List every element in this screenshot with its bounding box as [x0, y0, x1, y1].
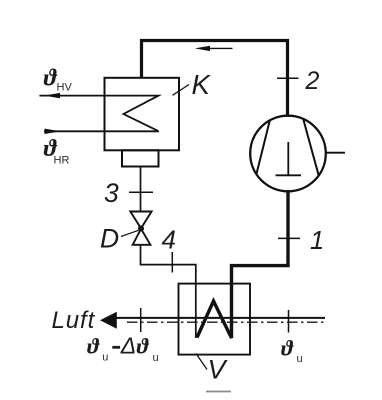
right duct tick	[288, 310, 290, 333]
compressor circle	[250, 116, 326, 192]
left duct tick	[140, 308, 142, 332]
svg-text:3: 3	[104, 178, 119, 208]
wire: receiver to expansion valve	[140, 167, 142, 212]
svg-text:K: K	[192, 69, 212, 100]
node 1 tick	[278, 237, 300, 239]
svg-text:4: 4	[162, 225, 176, 255]
leader line to D	[121, 230, 139, 236]
svg-text:ϑ: ϑ	[87, 333, 100, 358]
svg-text:1: 1	[310, 227, 324, 255]
wire: thick discharge pipe from condenser top to compressor inlet	[142, 41, 288, 117]
heating water coil zigzag inside K	[39, 96, 158, 132]
svg-text:u: u	[153, 352, 159, 364]
flow arrow on top pipe (pointing left)	[195, 46, 233, 51]
compressor internal mark	[276, 142, 302, 175]
evaporator V box	[179, 284, 251, 355]
theta_u - delta theta_u label	[87, 332, 159, 364]
svg-text:u: u	[102, 351, 108, 363]
svg-text:D: D	[100, 224, 119, 254]
condenser K box	[105, 78, 180, 151]
svg-text:Luft: Luft	[52, 307, 96, 334]
theta_u label (right)	[281, 335, 303, 364]
liquid receiver box under condenser	[122, 150, 159, 166]
node 2 tick	[277, 77, 299, 79]
air duct dash-dot centerline	[127, 321, 324, 323]
leader line to V	[196, 354, 207, 370]
air duct solid line	[114, 317, 325, 319]
arrow HR in (right)	[45, 129, 61, 134]
arrow HV out (left)	[44, 93, 60, 98]
node 3 tick	[129, 191, 153, 193]
svg-text:ϑ: ϑ	[137, 333, 150, 358]
wire: thick suction pipe compressor to evaporator with zigzag	[197, 192, 288, 339]
wire: valve to evaporator inlet	[141, 245, 197, 337]
svg-text:ϑ: ϑ	[281, 335, 294, 360]
node 4 tick	[171, 252, 173, 273]
expansion valve D (bowtie)	[130, 212, 151, 245]
leader line to K	[173, 85, 190, 96]
compressor right chord	[303, 119, 318, 175]
scan artifact under V	[206, 391, 231, 393]
svg-text:HR: HR	[54, 154, 70, 166]
svg-text:HV: HV	[57, 81, 73, 93]
svg-text:Δ: Δ	[120, 332, 136, 358]
svg-text:ϑ: ϑ	[44, 65, 58, 92]
svg-text:u: u	[297, 353, 303, 365]
compressor left chord	[256, 120, 270, 174]
svg-text:2: 2	[305, 67, 320, 95]
compressor drive shaft	[326, 152, 345, 154]
svg-text:V: V	[208, 355, 229, 385]
Luft arrow (big, pointing left)	[100, 312, 117, 329]
